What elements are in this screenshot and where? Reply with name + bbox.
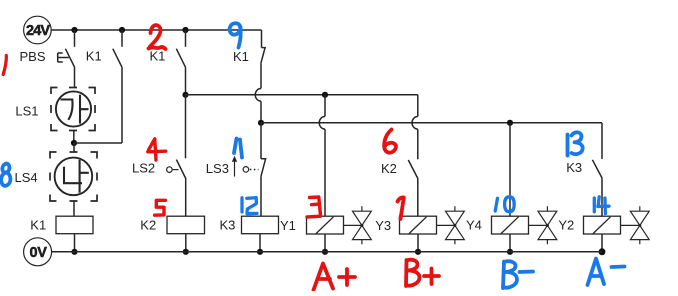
svg-text:LS4: LS4	[15, 170, 38, 185]
valve symbol for Y3	[437, 206, 465, 244]
node C (rung4 / lower bus)	[258, 120, 264, 126]
wire coil Y3 to bottom rail	[417, 234, 419, 252]
annotation 3 (red)	[307, 197, 321, 217]
red hand annotations	[3, 25, 439, 290]
upper bus wire	[186, 94, 418, 96]
wire rung 4 down to lower bus	[260, 101, 262, 123]
annotation 4 (red)	[148, 139, 166, 160]
contact K1 (rung 3, NO)	[176, 30, 185, 95]
node top rail / K1 rung 3	[182, 27, 188, 33]
svg-text:K1: K1	[233, 49, 249, 64]
annotation 9 (blue)	[230, 23, 241, 47]
annotation 8 (blue)	[1, 164, 10, 186]
node upper bus / A+ rung	[322, 92, 328, 98]
contact K3 (NO)	[592, 160, 602, 216]
svg-text:Y2: Y2	[558, 218, 574, 233]
wire coil Y1 to bottom rail	[324, 234, 326, 252]
wire hop: A+ rung over lower bus	[319, 117, 325, 130]
wire coil K1 to bottom rail	[74, 234, 76, 252]
top rail wire (24V bus)	[51, 29, 261, 31]
annotation 5 (red)	[155, 200, 166, 215]
node Y4 / 0V rail	[507, 249, 513, 255]
limit switch LS4 (dashed enclosure with circle marker 나)	[50, 152, 97, 201]
annotation B- (blue)	[503, 261, 533, 288]
annotation 14 (blue)	[594, 197, 609, 214]
wire coil K2 to bottom rail	[185, 234, 187, 252]
wire node A to LS4	[73, 143, 75, 152]
relay coil K2	[167, 216, 205, 234]
node top rail / K1 rung 2	[119, 27, 125, 33]
wire A- rung from lower bus corner down	[601, 123, 603, 159]
wire coil Y2 to bottom rail	[601, 234, 603, 252]
svg-text:K2: K2	[381, 161, 397, 176]
wire LS4 to coil K1	[73, 201, 75, 216]
wire hop: B+ rung over lower bus	[412, 117, 418, 130]
svg-text:K1: K1	[30, 218, 46, 233]
svg-text:0V: 0V	[30, 245, 48, 261]
wire B- rung (lower bus down to solenoid Y4)	[509, 123, 511, 216]
wire coil K3 to bottom rail	[259, 234, 261, 252]
svg-text:Y3: Y3	[375, 218, 391, 233]
svg-text:K1: K1	[86, 48, 102, 63]
svg-text:K3: K3	[566, 160, 582, 175]
node top rail / PBS rung	[71, 27, 77, 33]
wire A+ rung (upper bus down to solenoid Y1)	[324, 95, 326, 117]
annotation 6 (red)	[384, 130, 396, 153]
annotation 11 (blue)	[234, 139, 242, 158]
valve symbol for Y2	[621, 206, 650, 244]
node Y2 / 0V rail (end of rail)	[599, 248, 606, 255]
solenoid coil Y4	[492, 216, 529, 234]
limit switch LS1 (dashed enclosure with circle marker 가)	[51, 88, 95, 131]
annotation 7 (red)	[398, 197, 404, 219]
annotation A+ (red)	[314, 264, 356, 291]
svg-text:K2: K2	[140, 218, 156, 233]
svg-text:LS2: LS2	[132, 160, 155, 175]
annotation A- (blue)	[588, 259, 625, 286]
limit switch contact LS2 (NO with roller)	[167, 95, 186, 216]
relay coil K1	[56, 216, 93, 234]
pushbutton PBS (NO contact with manual actuator)	[58, 30, 75, 88]
svg-text:K3: K3	[220, 218, 236, 233]
valve symbol for Y1	[344, 206, 372, 244]
svg-text:K1: K1	[150, 49, 166, 64]
node Y3 / 0V rail	[415, 249, 421, 255]
contact K2 (NO)	[408, 160, 418, 216]
node A (junction LS1/LS4/K1-rung2)	[71, 140, 77, 146]
annotation 1 (red)	[3, 56, 6, 75]
wire hop: rung 4 over upper bus	[255, 89, 261, 102]
valve symbol for Y4	[529, 206, 557, 244]
annotation 12 (blue)	[242, 198, 257, 214]
svg-text:Y1: Y1	[280, 218, 296, 233]
svg-text:PBS: PBS	[20, 49, 46, 64]
svg-text:LS3: LS3	[206, 161, 229, 176]
limit switch contact LS3 (NO, mirrored, with idle-return roller)	[232, 123, 266, 216]
bottom rail wire (0V bus)	[52, 251, 602, 253]
contact K1 (rung 2, NO)	[113, 30, 122, 143]
node K2 / 0V rail	[183, 249, 189, 255]
annotation B+ (red)	[406, 260, 439, 286]
solenoid coil Y1	[307, 216, 344, 234]
solenoid coil Y2	[584, 216, 621, 234]
node K1 / 0V rail	[71, 249, 77, 255]
lower bus wire	[261, 122, 602, 124]
annotation 2 (red)	[149, 25, 166, 49]
svg-text:Y4: Y4	[466, 218, 482, 233]
node B (rung3 / upper bus)	[182, 92, 188, 98]
node K3 / 0V rail	[257, 249, 263, 255]
24V supply terminal	[24, 16, 52, 44]
node lower bus / B- rung	[507, 120, 513, 126]
annotation 13 (blue)	[568, 132, 583, 155]
solenoid coil Y3	[400, 216, 437, 234]
annotation 10 (blue)	[495, 197, 514, 212]
svg-text:24V: 24V	[26, 23, 50, 39]
svg-text:LS1: LS1	[15, 103, 38, 118]
relay coil K3	[242, 216, 279, 234]
wire LS1 bottom to node A	[73, 131, 75, 144]
wire B+ rung from upper bus corner down	[417, 95, 419, 117]
contact K1 (rung 4, NO, mirrored)	[261, 30, 265, 89]
0V supply terminal	[24, 238, 52, 266]
node Y1 / 0V rail	[322, 249, 328, 255]
wire node A to K1 rung 2	[74, 142, 122, 144]
wire coil Y4 to bottom rail	[509, 234, 511, 252]
